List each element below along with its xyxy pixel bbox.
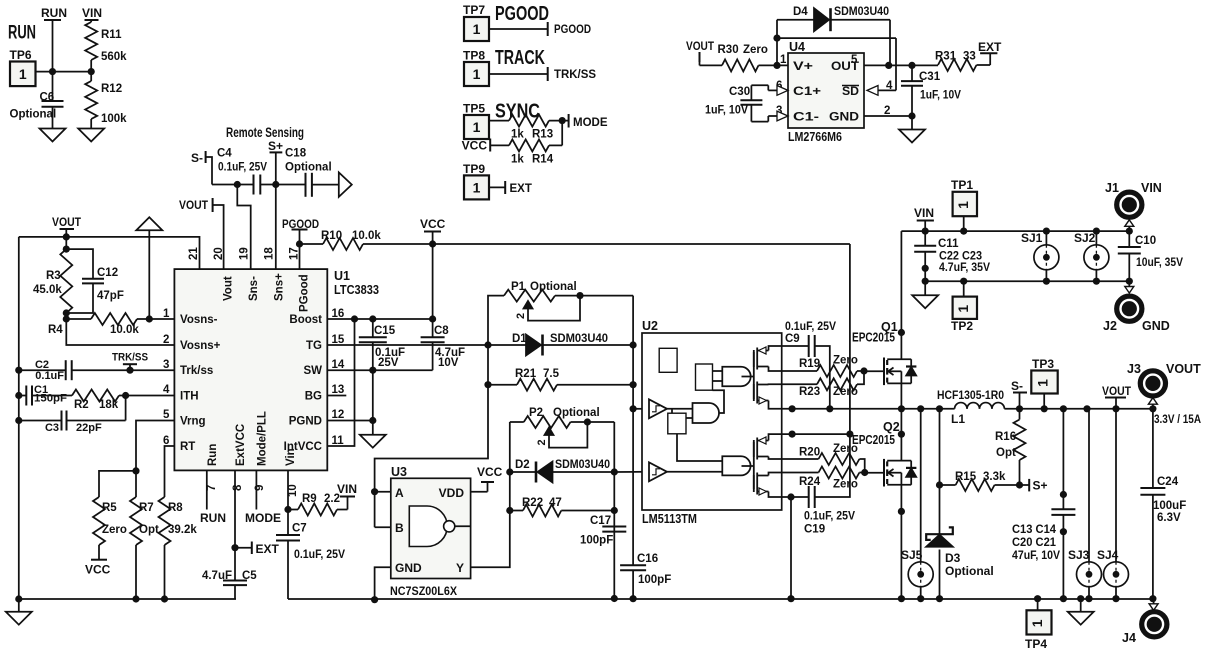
svg-text:R12: R12 [101,83,122,95]
wire OUT pin5 [864,64,938,66]
wire R24 to gate node [859,472,864,474]
solder jumper SJ4 [1097,409,1129,599]
resistor R3 45.0k [33,249,72,313]
svg-text:C16: C16 [637,553,658,565]
junction VIN nodes [922,228,929,235]
svg-text:TP3: TP3 [1032,357,1054,371]
svg-text:5: 5 [851,54,858,66]
terminal S+ [1029,479,1047,493]
svg-text:TP8: TP8 [463,49,485,63]
resistor R19 Zero [799,355,858,378]
resistor R21 7.5 [488,368,633,391]
svg-text:6.3V: 6.3V [1157,512,1181,524]
svg-text:10V: 10V [438,357,459,369]
junction VOUT stub [63,233,70,240]
ground [40,129,66,142]
svg-text:C12: C12 [97,267,118,279]
resistor R11 [85,22,127,63]
svg-text:TRACK: TRACK [495,47,545,69]
capacitor C31 [901,65,961,116]
terminal S+ [268,139,283,185]
wire to ground [911,116,913,130]
wire RT route [165,446,175,497]
wire R21 left riser [487,345,489,385]
wire HOH pin [782,370,817,372]
svg-text:13: 13 [332,384,345,396]
svg-text:C15: C15 [374,325,396,337]
terminal flag VOUT (pin20) [179,198,224,269]
svg-text:Vrng: Vrng [180,416,206,428]
capacitor C12 [66,249,124,313]
junction C11 mid dot [922,265,929,272]
svg-text:1: 1 [955,201,971,209]
U2 internal block rect3 [696,364,713,390]
svg-text:SDM03U40: SDM03U40 [550,333,608,345]
svg-text:C9: C9 [785,333,800,345]
svg-text:0.1uF, 25V: 0.1uF, 25V [294,549,345,561]
U2 wire gateC-out [742,465,754,467]
svg-text:C17: C17 [590,515,611,527]
svg-text:100pF: 100pF [638,574,671,586]
resistor R16 Opt [995,409,1026,485]
svg-text:Vosns-: Vosns- [180,314,218,326]
svg-text:GND: GND [829,110,859,124]
svg-text:D3: D3 [945,551,961,565]
junction A pin node [371,488,378,495]
wire Sns+ route [275,185,277,270]
ground [899,130,925,143]
wire LOL pin [782,472,819,474]
U2 internal block rect1 [659,348,677,372]
svg-text:C1+: C1+ [793,84,821,98]
svg-text:VDD: VDD [439,486,465,500]
U2 wire gateA-rect3 [713,390,725,413]
svg-text:0.1uF: 0.1uF [35,370,64,382]
test point TP2 [951,281,977,333]
svg-text:R15: R15 [955,471,977,483]
wire R5 branch [99,471,136,497]
junction VDD pin dot [789,431,796,438]
diode D3 Optional [926,527,993,598]
wire Q1 drain to VIN rail [900,231,902,359]
junction C13 dots [1060,491,1067,498]
svg-text:R5: R5 [102,502,117,514]
pin 4 arrow SD [867,86,878,96]
potentiometer P1 Optional [504,281,580,321]
capacitor C30 [705,86,762,117]
U2 fet driver 3 [754,434,782,459]
U2 and gate C [722,456,750,475]
test point TP6 [10,48,36,86]
svg-text:S+: S+ [268,139,283,153]
wire TG line [327,344,488,346]
svg-text:ITH: ITH [180,391,199,403]
svg-text:MODE: MODE [245,511,281,525]
svg-text:R23: R23 [799,386,820,398]
svg-text:VOUT: VOUT [52,215,82,229]
banana jack J1 VIN [1105,181,1162,231]
junction C3 tap [15,417,22,424]
svg-text:TP2: TP2 [951,319,973,333]
junction rail dots [1034,595,1041,602]
svg-text:R13: R13 [532,129,553,141]
svg-text:22pF: 22pF [76,422,102,434]
wire HS to R15/D3 [939,409,941,534]
junction S+ node [272,181,279,188]
svg-text:C24: C24 [1157,476,1179,488]
diode D2 SDM03U40 [510,459,610,483]
resistor R14 1k [509,139,554,165]
junction rail-left end [15,595,22,602]
U2 and gate B [722,367,750,386]
svg-text:U2: U2 [642,319,658,333]
svg-text:VCC: VCC [477,465,503,479]
diode D4 SDM03U40 [793,6,889,31]
junction Q1 source HS [898,405,905,412]
svg-text:SJ5: SJ5 [901,548,923,562]
svg-text:EXT: EXT [978,40,1002,54]
resistor R2 18k [32,390,119,412]
wire GND pin2 [864,115,912,117]
junction ITH node [122,392,129,399]
junction pin1 node [146,315,153,322]
junction R7 gnd [132,595,139,602]
svg-text:VCC: VCC [85,563,111,577]
capacitor C2 0.1uF [19,359,72,382]
wire SW line [327,342,432,370]
power flag VOUT triangle [136,217,162,319]
wire BG stub [327,395,346,397]
svg-text:EXT: EXT [510,183,532,195]
capacitor C11 C22 C23 [914,231,990,281]
inductor L1 HCF1305-1R0 [937,390,1004,426]
wire R7 to gnd rail [135,545,137,599]
IC U2 LM5113TM box [642,333,782,510]
capacitor C6 [10,72,64,129]
svg-text:1: 1 [163,308,170,320]
junction HI nodes [630,341,637,348]
svg-text:VIN: VIN [914,206,934,220]
svg-text:R30: R30 [718,44,739,56]
capacitor C24 100uF 6.3V [1140,409,1186,599]
svg-text:47uF, 10V: 47uF, 10V [1012,550,1060,562]
svg-text:4: 4 [163,384,170,396]
svg-text:LM5113TM: LM5113TM [642,512,697,526]
terminal MODE [569,114,608,129]
svg-text:1uF, 10V: 1uF, 10V [705,105,748,117]
wire D4 cathode to OUT [831,20,891,66]
svg-text:Optional: Optional [530,281,577,293]
wire C30 to C1+ pin6 [751,85,788,100]
junction R21 left [484,381,491,388]
svg-text:VIN: VIN [337,482,357,496]
svg-text:VCC: VCC [420,217,446,231]
svg-text:0.1uF, 25V: 0.1uF, 25V [804,511,855,523]
svg-text:J3: J3 [1127,362,1141,376]
diode D1 SDM03U40 [488,333,608,356]
svg-text:LTC3833: LTC3833 [334,283,379,297]
terminal flag VOUT (line) [1102,384,1132,409]
node V+ junction [773,62,780,69]
junction VSS pin dot [787,493,794,500]
resistor R24 Zero [799,467,859,491]
U2 wire rect3-gateB [713,371,723,381]
wire pin9 Mode [245,470,281,525]
svg-text:PGood: PGood [299,274,311,312]
svg-text:EPC2015: EPC2015 [852,433,895,447]
svg-text:R24: R24 [799,476,821,488]
svg-text:3.3V / 15A: 3.3V / 15A [1154,412,1201,426]
svg-text:1: 1 [473,179,481,195]
svg-text:HCF1305-1R0: HCF1305-1R0 [937,390,1004,402]
svg-text:VCC: VCC [462,139,488,153]
svg-text:Zero: Zero [743,44,768,56]
svg-text:0.1uF, 25V: 0.1uF, 25V [218,162,267,174]
U2 fet gate bar bottom [753,442,755,489]
svg-text:1: 1 [955,305,971,313]
capacitor C15 0.1uF 25V [359,319,405,369]
junction P2 wiper node [584,418,591,425]
junction D3 gnd [936,595,943,602]
svg-text:U1: U1 [334,269,350,283]
junction Q2 gnd [898,595,905,602]
wire TP8 to TRK/SS [489,67,548,81]
junction SW tap [369,367,376,374]
wire C30 to C1- pin3 [751,105,788,122]
svg-text:R14: R14 [532,154,554,166]
svg-text:J1: J1 [1105,181,1119,195]
svg-text:4: 4 [886,80,893,92]
svg-text:19: 19 [239,247,251,260]
svg-text:Zero: Zero [833,386,858,398]
svg-text:Opt: Opt [139,524,159,536]
svg-text:2: 2 [515,313,527,319]
wire HOL pin [782,383,817,385]
svg-text:3: 3 [163,359,169,371]
wire VOUT line [1004,408,1153,410]
svg-text:C31: C31 [919,71,941,83]
terminal flag VIN (R9) [337,482,357,510]
capacitor C4 [217,148,267,195]
svg-text:R2: R2 [74,399,89,411]
terminal S- [191,151,212,185]
svg-text:TP5: TP5 [463,102,485,116]
svg-text:EPC2015: EPC2015 [852,331,895,345]
wire R14 to MODE node [549,121,562,146]
svg-text:U4: U4 [789,40,805,54]
svg-text:C22 C23: C22 C23 [939,251,982,263]
terminal flag VCC [420,217,446,244]
svg-text:4.7uF, 35V: 4.7uF, 35V [939,262,990,274]
wire Q2 drain to HS [900,409,902,461]
svg-text:Y: Y [456,561,464,575]
wire R8 to gnd rail [164,545,166,599]
svg-text:45.0k: 45.0k [33,284,62,296]
svg-text:1k: 1k [511,129,524,141]
svg-text:R3: R3 [46,270,61,282]
wire VIN gnd rail [925,280,1129,282]
resistor R7 Opt [130,497,159,545]
svg-text:Vin: Vin [285,448,297,466]
wire Vrng route [136,421,174,498]
svg-text:Trk/ss: Trk/ss [180,365,213,377]
U2 wire rect2-gateA [686,417,693,419]
resistor R15 3.3k [940,471,1006,491]
junction gnd nodes [922,278,929,285]
resistor R10 10.0k [321,230,381,250]
resistor R9 2.2 [288,493,340,516]
resistor R13 1k [509,115,553,141]
wire Sns- route [237,185,250,270]
terminal flag VOUT (U4 input) [686,39,722,65]
svg-text:100k: 100k [101,113,127,125]
svg-text:R10: R10 [321,230,342,242]
wire B pin [375,526,391,528]
svg-text:Boost: Boost [289,314,322,326]
svg-text:TP7: TP7 [463,3,485,17]
test point TP4 [1025,599,1052,651]
svg-text:C4: C4 [217,148,232,160]
junction C1 tap [15,392,22,399]
solder jumper SJ5 [901,409,933,599]
junction PGND tap [369,417,376,424]
junction P1 wiper node [576,292,583,299]
junction RUN node [49,68,56,75]
svg-text:10.0k: 10.0k [110,324,139,336]
terminal EXT [235,542,280,557]
wire VIN rail [901,230,1129,232]
junction HS pin dot [789,405,796,412]
svg-text:7: 7 [206,485,218,491]
wire Vosns+ route [66,313,174,345]
wire left rail [18,237,20,599]
svg-text:17: 17 [289,247,301,260]
junction Q2 gate node [861,469,868,476]
U2 fet driver 4 [754,473,782,498]
wire R13 to MODE [549,120,569,122]
svg-text:VOUT: VOUT [179,198,209,212]
junction TG node [484,341,491,348]
transistor Q2 EPC2015 [852,420,916,487]
svg-text:PGND: PGND [289,416,322,428]
svg-text:1: 1 [473,66,481,82]
test point TP1 [951,178,977,231]
wire R12 to ground [90,119,92,129]
resistor R12 [85,81,127,125]
U2 and gate A [693,403,720,423]
wire HI input [633,408,649,410]
svg-text:2: 2 [163,334,169,346]
junction Q1 gate node [860,367,867,374]
junction EXT tap [231,544,238,551]
wire TP6 to divider [36,71,92,73]
svg-text:B: B [395,521,404,535]
svg-text:6: 6 [163,435,169,447]
junction SJ5 gnd [917,595,924,602]
ground (output) [1068,599,1094,625]
svg-text:2: 2 [536,439,548,445]
svg-text:C8: C8 [434,325,449,337]
svg-text:P2: P2 [529,407,543,419]
wire R20 to Q2 gate [859,459,864,473]
U2 schmitt buffer HI [649,399,667,418]
wire D1 cathode [543,344,633,346]
svg-text:C6: C6 [40,92,55,104]
svg-text:R7: R7 [139,502,154,514]
svg-text:1uF, 10V: 1uF, 10V [920,90,961,102]
wire TG to U3 A/B [375,385,488,528]
banana jack J3 VOUT [1127,362,1201,409]
banana jack J4 [1122,599,1167,645]
svg-text:VOUT: VOUT [1102,384,1132,398]
capacitor C13 C14 C20 C21 [1012,409,1075,599]
NAND gate symbol [409,506,470,547]
svg-text:TP1: TP1 [951,178,973,192]
wire VOUT rail to pin21 [19,237,200,269]
svg-text:LM2766M6: LM2766M6 [788,130,842,144]
junction Vrng node [132,467,139,474]
wire C3 to ITH node [67,396,126,421]
svg-text:1: 1 [19,66,27,82]
svg-text:P1: P1 [511,281,526,293]
capacitor C5 4.7uF [202,570,257,599]
junction C17 gnd [611,595,618,602]
wire D2 anode to LI [553,471,615,473]
capacitor C10 10uF 35V [1118,231,1183,281]
wire A pin [375,491,391,493]
wire P1 left riser [488,296,504,345]
svg-text:R20: R20 [799,447,820,459]
capacitor C8 4.7uF 10V [421,319,465,369]
svg-text:C3: C3 [45,422,59,434]
IC U4 LM2766M6 [788,40,864,144]
U2 schmitt buffer LI [649,462,667,481]
svg-text:Run: Run [207,444,219,466]
wire C9 to HS [815,346,830,409]
svg-text:D4: D4 [793,6,808,18]
svg-text:SDM03U40: SDM03U40 [555,459,610,471]
svg-text:EXT: EXT [256,542,280,556]
svg-text:3.3k: 3.3k [983,471,1006,483]
wire VCC riser [432,244,434,319]
wire LI input [614,471,649,473]
capacitor C1 150pF [19,384,67,406]
svg-text:Optional: Optional [945,564,994,578]
capacitor C18 [285,148,332,197]
svg-text:33: 33 [963,51,976,63]
junction Q2 drain dot [898,431,905,438]
transistor Q1 EPC2015 [852,320,916,385]
resistor R22 47 [510,497,615,517]
wire C18 to flag [312,184,339,186]
banana jack J2 GND [1103,281,1170,333]
svg-text:1: 1 [473,21,481,37]
resistor R4 10.0k [48,313,174,336]
wire gnd rail left [19,598,236,600]
svg-text:C20 C21: C20 C21 [1012,537,1057,549]
svg-text:R11: R11 [101,29,122,41]
resistor R31 33 [935,51,977,72]
svg-text:Zero: Zero [833,479,858,491]
terminal flag VCC (U3 VDD) [471,465,503,492]
U2 wire rect2-gateC [677,434,722,461]
ground (PGND) [360,435,386,448]
svg-text:7.5: 7.5 [543,368,560,380]
svg-text:RUN: RUN [41,6,67,20]
junction HS nodes [917,405,924,412]
svg-text:TP9: TP9 [463,162,485,176]
terminal flag VIN (rail) [914,206,934,231]
